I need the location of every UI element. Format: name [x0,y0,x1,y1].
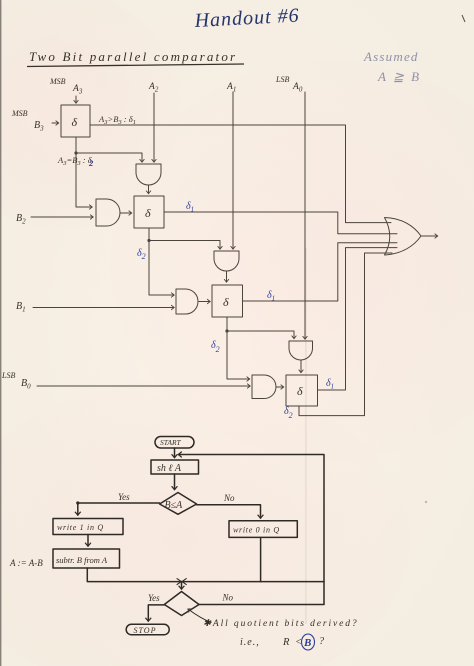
svg-text:A := A-B: A := A-B [9,558,43,568]
AND gate G5 (A0 enable, down-pointing) [289,341,313,360]
corner pen mark [462,15,465,22]
svg-text:i.e.,: i.e., [240,637,260,648]
svg-text:R <: R < [282,637,304,648]
wire G6 out to box4 [276,386,284,388]
svg-text:?: ? [319,636,324,647]
node N3 junction [225,329,228,332]
wire node2 to G4 [149,241,174,296]
wire delta1 stage2 to OR [164,212,397,234]
wire A0 input [304,92,306,339]
wire node3 to G5 [227,331,294,339]
wire START to shl box [174,448,176,458]
wire node3 to G6 [227,331,250,379]
svg-text:No: No [222,593,234,603]
wire junction to diamond2 [181,582,183,589]
wire box2 to node2 [148,228,150,241]
wire G2 out to box2 [120,212,132,214]
box write 1 in Q [53,519,123,535]
wire A3 input [75,96,77,103]
svg-text:MSB: MSB [49,77,66,86]
flowchart STOP oval [126,624,169,635]
wire delta1 stage3 to OR [243,243,398,301]
wire No branch 1 [197,505,261,518]
wire G5 out to box4 [300,360,302,373]
wire delta2 stage4 to OR [299,253,392,416]
wire box3 to node3 [226,317,228,331]
svg-text:No: No [223,493,235,503]
wire shl to diamond1 [174,474,176,490]
wire G1 out to box2 [148,185,150,194]
flowchart START oval [155,437,194,449]
wire A1 input [232,92,234,249]
annotation arrow to diamond2 [188,609,211,623]
AND gate G1 (A2 enable, down-pointing) [136,164,161,185]
box write 0 in Q [229,521,297,538]
svg-text:δ: δ [72,115,78,129]
wire B3 input [52,122,59,124]
svg-text:Yes: Yes [118,492,130,502]
svg-text:Assumed: Assumed [363,49,419,64]
wire Yes branch 1 [78,503,160,515]
decision diamond2 [164,592,199,616]
decision diamond1 B<=A [160,493,197,515]
svg-text:LSB: LSB [275,75,289,84]
AND gate G6 (B0 enable, right-pointing) [252,375,276,399]
wire B1 input [33,307,174,309]
wire subtr down and across [87,568,324,582]
svg-text:B≤A: B≤A [165,500,184,511]
svg-text:sh ℓ A: sh ℓ A [157,463,182,474]
wire Yes branch 2 to STOP [148,605,164,621]
wire delta1 stage4 to OR [318,248,398,390]
junction arrows converge [177,579,181,585]
svg-text:δ: δ [223,295,229,309]
wire box1 to node1 [75,137,77,153]
node N1 junction [74,151,77,154]
svg-text:B: B [303,637,311,649]
box subtr B from A [53,549,120,568]
wire node2 to G3 [149,241,220,250]
title underline [27,64,244,67]
svg-text:δ: δ [297,384,303,398]
wire write0 down [260,537,262,581]
wire OR output [421,235,438,237]
wire B2 input [31,216,93,218]
faint paper crease [305,248,306,624]
wire loop back from No [179,455,325,605]
wire B0 input [37,385,250,387]
comparator U1 box (A3,B3 stage) [61,105,90,137]
page left edge [0,0,1,666]
comparator U3 box (A1,B1 stage) [212,285,243,317]
svg-text:Two Bit parallel comparator: Two Bit parallel comparator [29,49,237,64]
svg-text:write 0 in Q: write 0 in Q [233,526,280,535]
svg-text:δ: δ [145,206,151,220]
wire write1 to subtr [87,535,89,547]
wire G3 out to box3 [226,271,228,282]
wire A2 input [153,93,155,162]
box shl A [151,460,199,474]
wire node1 to G1 [76,153,142,162]
wire node1 to G2 [76,153,92,207]
wire G4 out to box3 [199,301,210,303]
AND gate G3 (A1 enable, down-pointing) [214,251,239,271]
svg-text:subtr. B from A: subtr. B from A [56,555,108,565]
comparator U4 box (A0,B0 stage) [286,375,318,406]
svg-text:2: 2 [88,158,94,168]
svg-text:STOP: STOP [134,626,157,635]
svg-text:START: START [160,438,182,447]
svg-text:Yes: Yes [148,593,160,603]
svg-text:A ≧ B: A ≧ B [377,69,421,84]
svg-text:MSB: MSB [11,109,28,118]
AND gate G4 (B1 enable, right-pointing) [176,289,198,314]
wire delta1 stage1 to OR [90,125,391,223]
comparator U2 box (A2,B2 stage) [134,196,164,228]
svg-text:✱All quotient bits derived?: ✱All quotient bits derived? [203,619,359,629]
OR gate G7 (output A>=B) [385,218,422,256]
svg-text:LSB: LSB [1,371,15,380]
AND gate G2 (B2 enable, right-pointing) [96,199,120,226]
node N2 junction [147,239,150,242]
svg-text:write 1 in Q: write 1 in Q [57,523,104,532]
